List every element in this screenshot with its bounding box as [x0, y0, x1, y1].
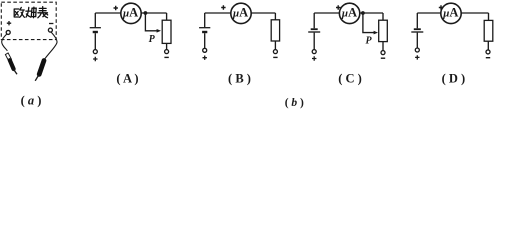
- terminal post right C: [381, 51, 385, 55]
- polarity + at meter B: [221, 5, 225, 9]
- wire: left drop D: [416, 13, 418, 28]
- test lead cord (right): [45, 32, 57, 59]
- node J1 (A): [144, 11, 148, 15]
- resistor R1 (A): [162, 20, 171, 43]
- resistor R2 (B): [271, 20, 279, 41]
- terminal post left D: [415, 48, 419, 52]
- ammeter U2 (B): [231, 3, 251, 23]
- svg-text:( C ): ( C ): [338, 72, 362, 86]
- polarity - A: [164, 56, 168, 58]
- svg-text:( a ): ( a ): [21, 94, 42, 108]
- label 欧姆表 (drawn strokes): [14, 7, 48, 18]
- wire: left drop C: [313, 13, 315, 28]
- battery G4 (D, reversed): [411, 29, 423, 32]
- terminal post right D: [486, 50, 490, 54]
- wire: top run A: [95, 12, 166, 14]
- wire: resistor to terminal A: [166, 43, 168, 49]
- polarity - D: [486, 57, 490, 59]
- wire: top run D: [417, 12, 488, 14]
- wiper arm P (C): [363, 13, 378, 34]
- svg-text:μA: μA: [442, 6, 458, 20]
- wire: right drop D: [488, 13, 490, 20]
- wire: right drop C: [382, 13, 384, 20]
- svg-text:( D ): ( D ): [442, 72, 466, 86]
- battery G2 (B): [199, 28, 210, 32]
- svg-text:P: P: [149, 34, 156, 45]
- battery G1 (A): [90, 28, 101, 32]
- wire: left drop A: [94, 13, 96, 27]
- test probe (left): [5, 53, 17, 74]
- terminal post (right): [48, 28, 52, 32]
- wire: resistor to terminal B: [274, 41, 276, 50]
- ammeter U3 (C): [339, 3, 359, 23]
- minus terminal mark inside box: [49, 23, 53, 25]
- polarity + B: [203, 56, 207, 60]
- test lead cord (left): [2, 34, 8, 51]
- test probe (right): [35, 61, 44, 81]
- wire: battery to terminal A: [94, 33, 96, 49]
- svg-text:( B ): ( B ): [228, 72, 251, 86]
- svg-text:( A ): ( A ): [116, 72, 138, 86]
- polarity + at meter C: [336, 5, 340, 9]
- node J2 (C): [361, 11, 365, 15]
- wire: battery to terminal B: [204, 33, 206, 48]
- svg-text:μA: μA: [122, 6, 138, 20]
- terminal post right A: [165, 50, 169, 54]
- wire: right drop B: [274, 13, 276, 20]
- wire: left drop B: [204, 13, 206, 27]
- terminal post left C: [312, 50, 316, 54]
- wire: right drop A: [166, 13, 168, 20]
- plus terminal mark inside box: [7, 21, 11, 25]
- polarity + C: [312, 56, 316, 60]
- wiper arm P (A): [145, 13, 161, 33]
- polarity + D: [415, 55, 419, 59]
- wire: resistor to terminal C: [382, 42, 384, 51]
- wire: top run C: [314, 12, 383, 14]
- wire: top run B: [205, 12, 276, 14]
- svg-text:( b ): ( b ): [285, 97, 304, 109]
- resistor R4 (D): [484, 20, 493, 41]
- wire: resistor to terminal D: [487, 41, 489, 50]
- polarity - B: [273, 56, 277, 58]
- polarity + A: [93, 57, 97, 61]
- svg-text:P: P: [365, 35, 372, 46]
- ammeter U4 (D): [441, 3, 461, 23]
- resistor R3 (C): [379, 20, 388, 41]
- ammeter U1 (A): [121, 3, 141, 23]
- svg-text:μA: μA: [341, 6, 357, 20]
- wire: battery to terminal D: [416, 33, 418, 48]
- polarity - C: [381, 57, 385, 59]
- ohmmeter dashed enclosure: [1, 2, 56, 39]
- svg-text:μA: μA: [232, 6, 248, 20]
- polarity + at meter A: [114, 6, 118, 10]
- terminal post right B: [273, 50, 277, 54]
- terminal post left A: [93, 50, 97, 54]
- terminal post (left): [6, 30, 10, 34]
- battery G3 (C, reversed): [308, 29, 320, 32]
- wire: battery to terminal C: [313, 33, 315, 50]
- terminal post left B: [203, 48, 207, 52]
- polarity + at meter D: [439, 5, 443, 9]
